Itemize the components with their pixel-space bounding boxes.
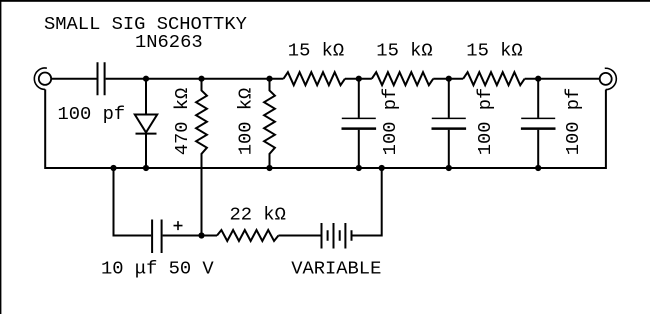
svg-text:VARIABLE: VARIABLE	[291, 258, 381, 280]
svg-text:1N6263: 1N6263	[135, 31, 203, 53]
svg-text:15 kΩ: 15 kΩ	[376, 40, 432, 62]
svg-text:22 kΩ: 22 kΩ	[230, 204, 286, 226]
svg-text:470 kΩ: 470 kΩ	[171, 88, 193, 156]
svg-text:100 pf: 100 pf	[379, 88, 401, 156]
svg-text:10 μf 50 V: 10 μf 50 V	[101, 258, 214, 280]
svg-text:15 kΩ: 15 kΩ	[288, 40, 344, 62]
svg-text:15 kΩ: 15 kΩ	[466, 40, 522, 62]
svg-text:100 pf: 100 pf	[474, 88, 496, 156]
svg-text:100 pf: 100 pf	[562, 88, 584, 156]
svg-text:100 pf: 100 pf	[58, 103, 126, 125]
svg-text:100 kΩ: 100 kΩ	[234, 88, 256, 156]
